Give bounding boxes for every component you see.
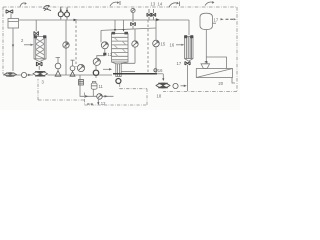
pump P5 xyxy=(65,12,70,17)
dashed line x148 xyxy=(147,20,149,73)
arrow down on line xyxy=(12,45,14,48)
circle J xyxy=(21,72,26,77)
valve 16 on pump H line xyxy=(154,69,157,72)
drop to boat 18 xyxy=(162,74,164,79)
rotameter A xyxy=(55,63,61,69)
pump E dark xyxy=(93,70,98,75)
small pump under vessel xyxy=(116,79,121,84)
vessel top-right xyxy=(200,13,213,29)
svg-text:12: 12 xyxy=(101,101,106,106)
line right of vessel xyxy=(121,71,135,73)
pump H xyxy=(153,40,160,47)
valve V3 xyxy=(36,62,42,66)
border bottom-right xyxy=(163,91,237,93)
svg-text:11: 11 xyxy=(99,84,104,89)
pump D xyxy=(93,58,100,65)
border bottom-left xyxy=(38,99,85,101)
boat pump 18 xyxy=(156,83,170,88)
svg-text:2: 2 xyxy=(21,38,24,43)
vent arc 2 xyxy=(43,5,50,9)
dashed process line x76 xyxy=(75,21,77,67)
feed arrow into narrow vessel xyxy=(103,68,110,70)
feed drops into column xyxy=(115,20,124,30)
right column C16 striped xyxy=(185,37,194,59)
connector F down to D xyxy=(104,49,106,53)
drop to valve V2 xyxy=(35,20,37,31)
line T1 down xyxy=(12,28,14,71)
boat pump B1 xyxy=(4,73,17,77)
bottom line left xyxy=(3,74,112,76)
check valve mark xyxy=(44,8,51,10)
station flow line xyxy=(80,75,114,96)
pump P4 xyxy=(58,12,63,17)
border top xyxy=(3,6,237,8)
vent arc 5 xyxy=(205,2,214,6)
svg-text:15: 15 xyxy=(161,42,166,47)
border inner-box xyxy=(85,84,148,106)
arrowhead on pipe xyxy=(74,19,78,22)
rotameter B xyxy=(70,66,75,71)
svg-text:17: 17 xyxy=(177,61,182,66)
vent arc 4 xyxy=(169,3,178,7)
central column C8 xyxy=(112,34,129,63)
arrow to line xyxy=(181,85,185,87)
border notch vertical xyxy=(37,79,39,100)
svg-text:12: 12 xyxy=(108,52,113,57)
column bottom funnel xyxy=(112,62,129,64)
svg-text:17: 17 xyxy=(214,18,219,23)
valve on T1 vent xyxy=(10,14,12,19)
tank T1 top-left xyxy=(8,19,19,29)
boat pump B2 xyxy=(33,71,48,76)
arrow into column xyxy=(24,44,31,46)
circle I xyxy=(173,83,178,88)
narrow vessel below column xyxy=(116,64,121,77)
pump K mid-left xyxy=(63,42,69,48)
hopper xyxy=(201,64,210,69)
svg-text:16: 16 xyxy=(170,42,175,47)
svg-text:19: 19 xyxy=(204,61,208,65)
valve on riser 133 xyxy=(132,13,134,23)
station pump xyxy=(97,94,103,100)
main top pipe xyxy=(19,19,190,21)
pump circle near top border xyxy=(131,8,135,12)
funnel + valve under C16 xyxy=(185,59,194,62)
cap right xyxy=(124,32,128,35)
conveyor xyxy=(196,69,232,78)
line pumps down xyxy=(65,20,67,76)
svg-text:13: 13 xyxy=(151,2,156,7)
thick bottoms line xyxy=(113,73,157,75)
cap left xyxy=(112,32,116,35)
column bottom funnel xyxy=(34,59,46,62)
ticks under station xyxy=(87,103,93,105)
pump C xyxy=(77,64,84,71)
arrow into C16 xyxy=(176,44,182,46)
svg-text:16: 16 xyxy=(158,68,163,73)
pump G xyxy=(132,41,138,47)
valve V2 xyxy=(34,31,39,35)
feed drop xyxy=(188,20,190,35)
svg-text:18: 18 xyxy=(157,94,162,99)
svg-text:20: 20 xyxy=(218,81,223,86)
border right xyxy=(236,7,238,92)
vent arc top-left xyxy=(20,3,26,7)
left column C2 xyxy=(34,37,46,59)
border left xyxy=(2,7,4,74)
vent arc 3 xyxy=(110,2,119,6)
svg-text:14: 14 xyxy=(158,2,163,7)
inline filter on drop line xyxy=(79,80,84,86)
station drain xyxy=(97,99,99,103)
valves 13 14 xyxy=(149,9,154,20)
svg-text:3: 3 xyxy=(42,80,45,85)
header over column xyxy=(101,28,156,30)
station tank 11 xyxy=(91,83,97,89)
pump F xyxy=(101,42,108,49)
branch to right xyxy=(206,57,226,69)
